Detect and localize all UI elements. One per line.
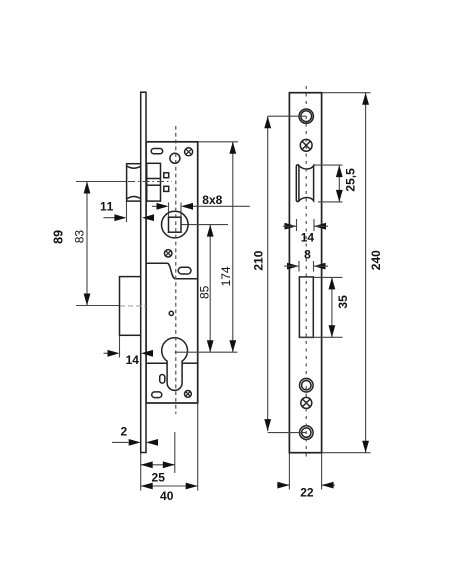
svg-text:8x8: 8x8: [202, 193, 222, 207]
svg-text:8: 8: [304, 248, 311, 262]
svg-text:11: 11: [100, 200, 114, 214]
svg-text:83: 83: [73, 230, 87, 244]
svg-text:174: 174: [219, 266, 233, 286]
svg-text:35: 35: [336, 295, 350, 309]
svg-text:240: 240: [369, 250, 383, 270]
svg-text:85: 85: [198, 285, 212, 299]
svg-text:210: 210: [251, 250, 265, 270]
svg-text:14: 14: [126, 353, 140, 367]
svg-text:89: 89: [52, 230, 66, 244]
svg-text:40: 40: [160, 489, 174, 503]
svg-text:2: 2: [120, 425, 127, 439]
svg-text:25: 25: [152, 470, 166, 484]
svg-text:25,5: 25,5: [344, 168, 358, 192]
svg-text:22: 22: [300, 485, 314, 499]
svg-text:14: 14: [301, 230, 315, 244]
